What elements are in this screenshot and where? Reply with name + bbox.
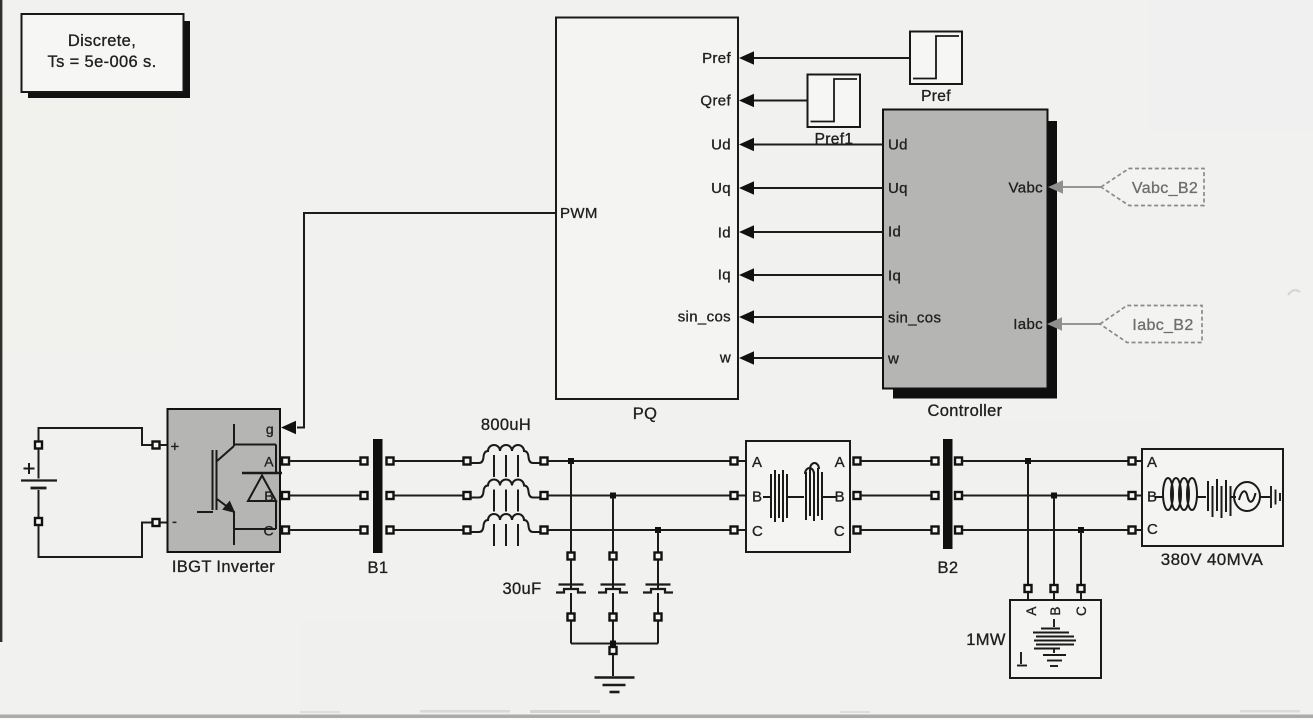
block Controller (gray with drop shadow) with pin labels bbox=[883, 110, 1057, 421]
wire Vabc_B2 -> Controller.Vabc bbox=[1048, 180, 1101, 194]
wire La -> transformer.A with junction to Ca bbox=[548, 458, 747, 465]
wire Lb -> transformer.B with junction to Cb bbox=[548, 492, 747, 499]
wire Controller.w -> PQ.w bbox=[739, 351, 883, 365]
wire node B -> load.B bbox=[1051, 498, 1058, 600]
svg-text:B1: B1 bbox=[368, 559, 389, 577]
wire B1.C -> inductor Lc bbox=[387, 527, 471, 534]
svg-text:-: - bbox=[172, 514, 177, 531]
svg-text:Ts = 5e-006 s.: Ts = 5e-006 s. bbox=[48, 53, 157, 71]
svg-text:w: w bbox=[887, 351, 899, 368]
svg-text:w: w bbox=[719, 350, 731, 367]
wire Lc -> transformer.C with junction to Cc bbox=[548, 527, 747, 534]
svg-text:Iq: Iq bbox=[718, 267, 731, 284]
inductor Lb (phase B) bbox=[470, 480, 548, 512]
svg-text:C: C bbox=[264, 523, 274, 539]
svg-text:sin_cos: sin_cos bbox=[888, 310, 941, 327]
svg-text:Ud: Ud bbox=[888, 137, 908, 154]
wire transformer.C -> B2.C bbox=[854, 527, 939, 534]
diode (antiparallel) inside inverter bbox=[242, 445, 282, 530]
wire B2.A -> source.A with junction node A bbox=[955, 458, 1142, 465]
wire battery + -> inverter + bbox=[39, 428, 168, 449]
wire Pref -> PQ.Pref bbox=[739, 51, 910, 65]
wire Iabc_B2 -> Controller.Iabc bbox=[1047, 317, 1100, 331]
wire node A -> load.A bbox=[1025, 463, 1032, 600]
block source 380V 40MVA bbox=[1142, 449, 1283, 546]
svg-text:Discrete,: Discrete, bbox=[68, 32, 136, 50]
wire Controller.sin_cos -> PQ.sin_cos bbox=[739, 310, 883, 324]
wire B2.C -> source.C with junction node C bbox=[955, 527, 1142, 534]
svg-text:C: C bbox=[834, 523, 845, 540]
transformer winding icon bbox=[763, 463, 836, 522]
svg-text:Id: Id bbox=[718, 225, 731, 242]
wire B2.B -> source.B with junction node B bbox=[955, 492, 1142, 499]
svg-text:IBGT Inverter: IBGT Inverter bbox=[172, 558, 275, 576]
svg-text:Pref: Pref bbox=[702, 50, 731, 67]
ground bbox=[595, 678, 635, 693]
svg-text:1MW: 1MW bbox=[966, 631, 1006, 649]
svg-text:Iabc_B2: Iabc_B2 bbox=[1132, 317, 1193, 334]
wire B1.B -> inductor Lb bbox=[387, 492, 471, 499]
svg-text:B: B bbox=[752, 489, 762, 506]
wire battery - -> inverter - bbox=[39, 519, 168, 557]
svg-text:C: C bbox=[1147, 521, 1158, 538]
svg-text:800uH: 800uH bbox=[481, 416, 531, 434]
svg-text:380V 40MVA: 380V 40MVA bbox=[1161, 550, 1264, 569]
svg-text:A: A bbox=[264, 454, 274, 470]
wire node C -> load.C bbox=[1078, 532, 1085, 600]
capacitor star-point bus wire bbox=[571, 641, 658, 677]
capacitor Cc bbox=[643, 532, 673, 644]
block PQ (PWM controller) with pin labels bbox=[556, 18, 738, 424]
svg-text:g: g bbox=[266, 421, 274, 437]
DC source battery bbox=[21, 442, 57, 526]
block IBGT Inverter (gray) bbox=[168, 409, 281, 576]
wire inverter.B -> B1.B bbox=[282, 492, 368, 499]
wire inverter.C -> B1.C bbox=[282, 527, 368, 534]
wire B1.A -> inductor La bbox=[387, 458, 471, 465]
svg-text:Vabc_B2: Vabc_B2 bbox=[1132, 180, 1198, 197]
wire Controller.Iq -> PQ.Iq bbox=[739, 268, 883, 282]
block transformer (three-phase) bbox=[746, 441, 850, 552]
step source Pref bbox=[910, 32, 962, 106]
AC voltage source symbol bbox=[1234, 482, 1270, 511]
transistor IGBT symbol inside inverter bbox=[197, 424, 276, 545]
annotation block: Discrete, Ts = 5e-006 s. bbox=[22, 14, 191, 98]
svg-text:B: B bbox=[1048, 606, 1063, 615]
svg-text:C: C bbox=[1074, 606, 1089, 616]
wire Controller.Id -> PQ.Id bbox=[739, 225, 883, 239]
svg-text:Pref: Pref bbox=[921, 88, 951, 105]
wire Controller.Ud -> PQ.Ud bbox=[739, 138, 883, 152]
load RL icon (rotated) inside 1MW block bbox=[1017, 619, 1076, 666]
svg-text:PQ: PQ bbox=[633, 405, 658, 423]
svg-text:sin_cos: sin_cos bbox=[678, 309, 731, 326]
svg-text:B2: B2 bbox=[938, 559, 959, 577]
block load 1MW bbox=[1010, 600, 1101, 678]
source impedance resistor icon bbox=[1208, 479, 1236, 518]
wire Pref1 -> PQ.Qref bbox=[739, 94, 808, 108]
capacitor Cb bbox=[598, 498, 628, 644]
svg-text:A: A bbox=[835, 454, 845, 471]
capacitor Ca bbox=[556, 463, 586, 644]
svg-text:Ud: Ud bbox=[711, 137, 731, 154]
svg-text:A: A bbox=[1147, 454, 1157, 471]
from tag Iabc_B2 bbox=[1100, 306, 1202, 343]
source impedance inductor icon bbox=[1155, 478, 1206, 510]
wire transformer.A -> B2.A bbox=[854, 458, 939, 465]
svg-text:Uq: Uq bbox=[888, 180, 908, 197]
svg-text:PWM: PWM bbox=[560, 205, 598, 222]
ground (inside source block) bbox=[1271, 486, 1280, 508]
svg-text:Iabc: Iabc bbox=[1013, 316, 1043, 333]
svg-text:Controller: Controller bbox=[927, 402, 1002, 420]
svg-text:30uF: 30uF bbox=[502, 580, 541, 598]
svg-text:Uq: Uq bbox=[711, 180, 731, 197]
step source Pref1 bbox=[808, 75, 861, 149]
svg-text:A: A bbox=[752, 454, 762, 471]
svg-text:A: A bbox=[1024, 606, 1039, 615]
wire PQ.PWM -> IBGT Inverter.g bbox=[281, 213, 556, 434]
measurement block B1 bbox=[368, 439, 389, 577]
svg-text:+: + bbox=[171, 439, 180, 456]
svg-text:Id: Id bbox=[888, 224, 901, 241]
wire inverter.A -> B1.A bbox=[282, 458, 368, 465]
inductor Lc (phase C) bbox=[470, 514, 548, 546]
svg-text:Iq: Iq bbox=[888, 268, 901, 285]
wire Controller.Uq -> PQ.Uq bbox=[739, 181, 883, 195]
from tag Vabc_B2 bbox=[1101, 169, 1204, 206]
svg-text:Qref: Qref bbox=[700, 93, 731, 110]
svg-text:C: C bbox=[752, 523, 763, 540]
measurement block B2 bbox=[938, 439, 959, 577]
wire transformer.B -> B2.B bbox=[854, 492, 939, 499]
svg-text:B: B bbox=[835, 489, 845, 506]
inductor La 800uH (phase A) bbox=[470, 445, 548, 477]
svg-text:Vabc: Vabc bbox=[1009, 180, 1044, 197]
